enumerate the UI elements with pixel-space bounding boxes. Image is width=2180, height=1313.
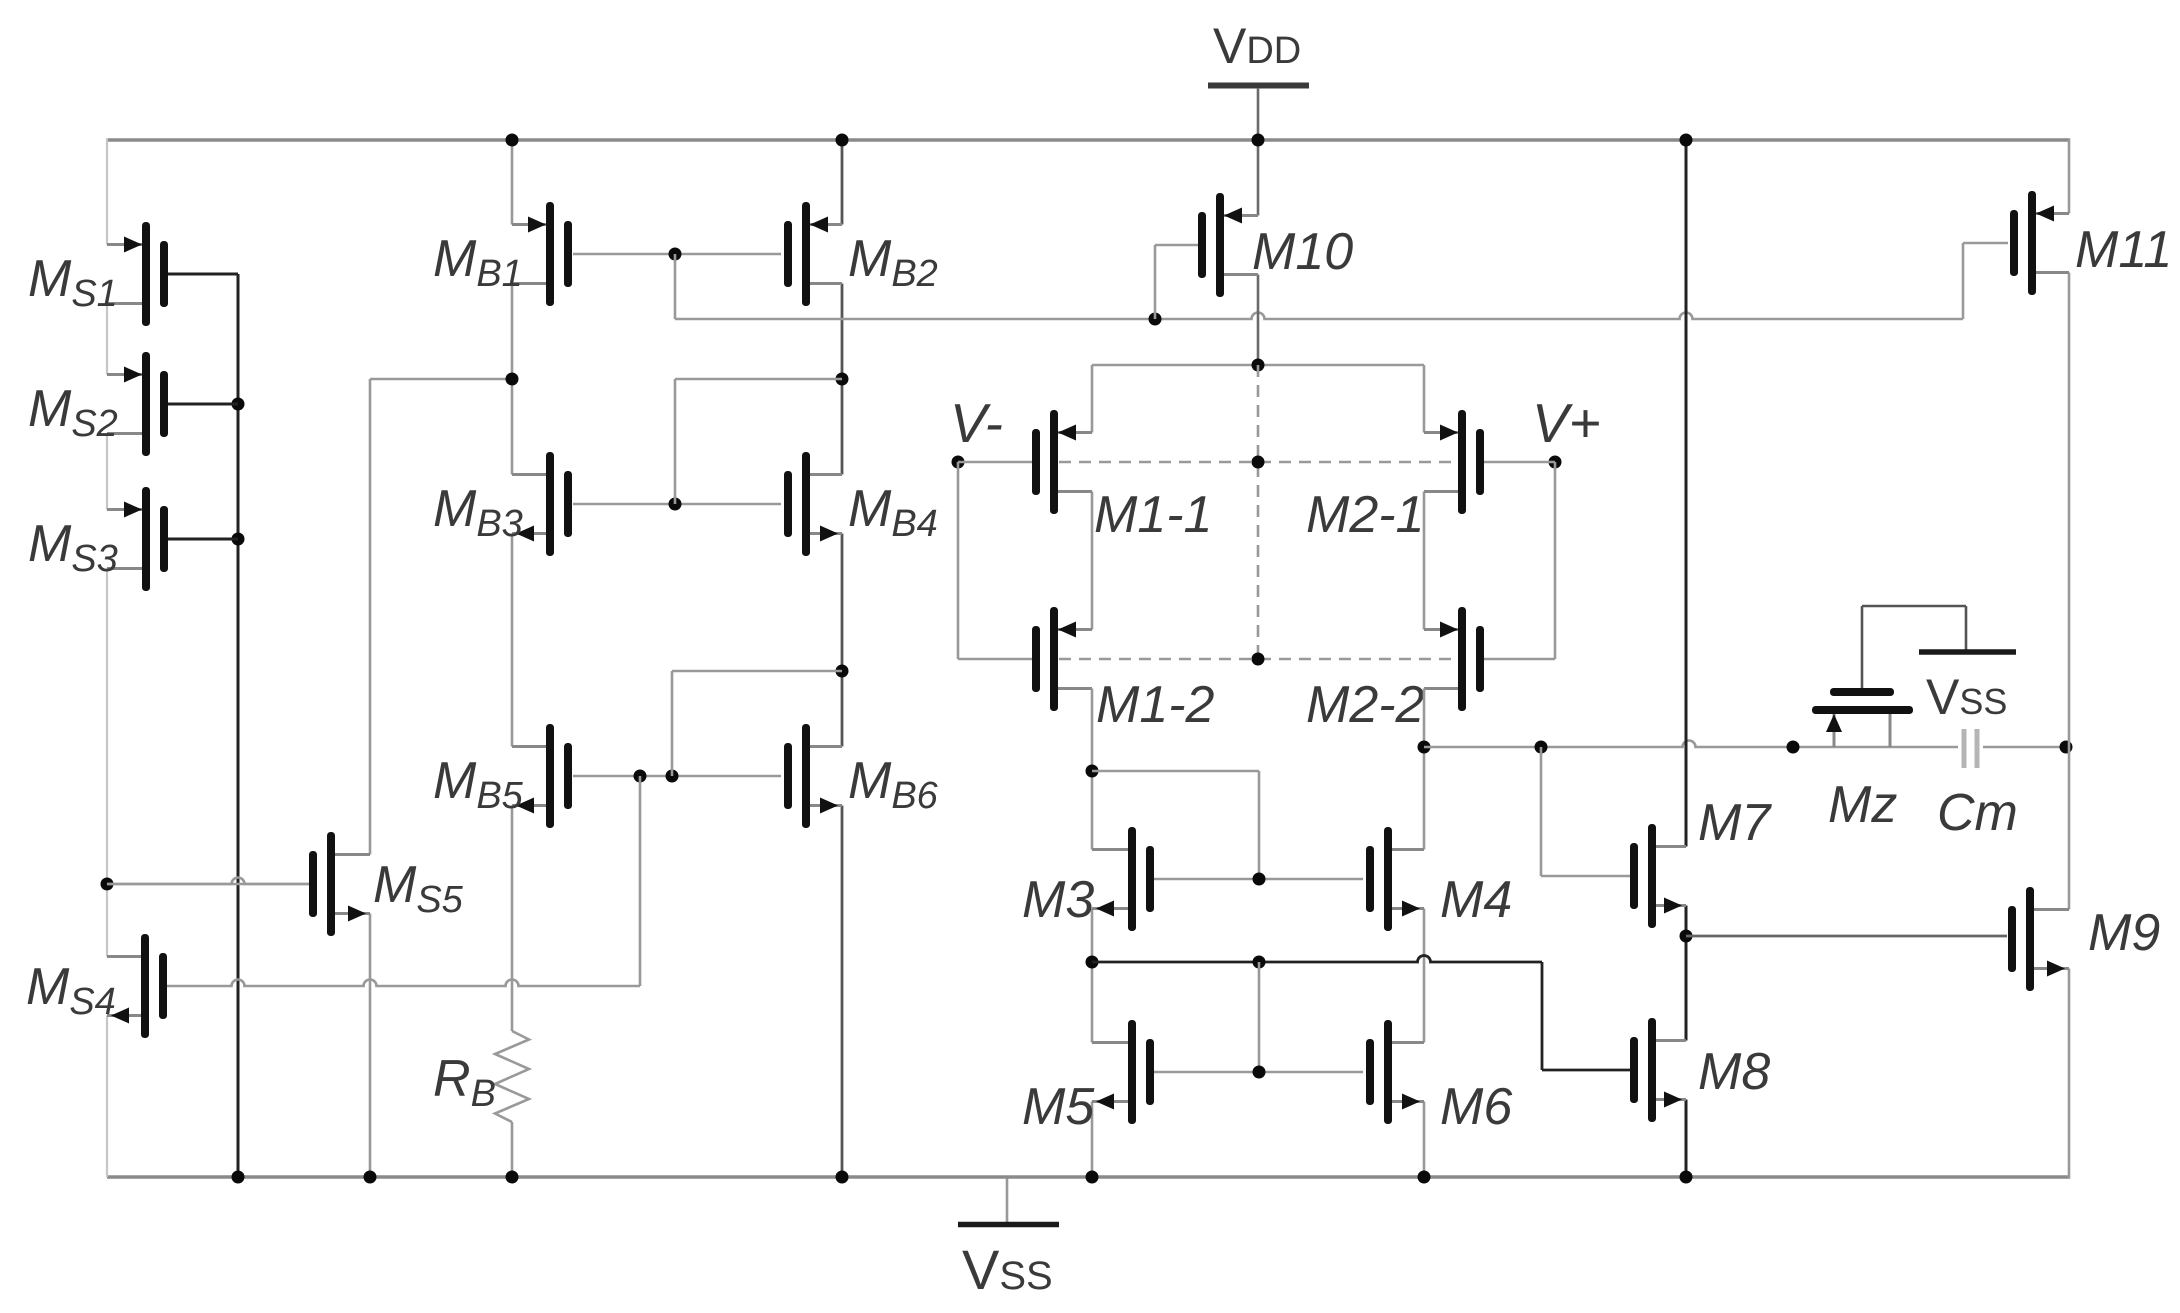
- dashed symmetry line row 2: [1059, 658, 1457, 661]
- wire: MB1-MB2 gate line: [573, 253, 781, 256]
- wire: MB1/MB3/MB5/RB column: [511, 138, 514, 1177]
- transistor M5: [1092, 1020, 1154, 1124]
- wire: right output column: [2068, 138, 2071, 1179]
- transistor M7: [1630, 824, 1686, 928]
- node: M7 source / M8 drain / M9 gate: [1680, 930, 1693, 943]
- wire: tail to M2-1 drain: [1423, 365, 1426, 433]
- wire: M9 gate line: [1686, 935, 2007, 938]
- transistor M2-1: [1424, 410, 1484, 514]
- svg-text:M10: M10: [1252, 223, 1353, 281]
- svg-text:V-: V-: [950, 392, 1003, 454]
- node: M8 source at VSS rail: [1680, 1171, 1693, 1184]
- svg-text:M6: M6: [1440, 1078, 1512, 1136]
- node: M2-2 source / first stage output: [1418, 741, 1431, 754]
- wire: MS4 gate line to MB5 gate node (hops 3 columns): [167, 980, 640, 987]
- transistor Mz: [1812, 606, 1966, 747]
- svg-text:M8: M8: [1698, 1043, 1770, 1101]
- wire: MS5 gate lead to left column (hops MS gate column): [107, 878, 309, 885]
- transistor MB3: [512, 452, 572, 556]
- node: M3/M4 gate junction: [1253, 873, 1266, 886]
- svg-text:M7: M7: [1698, 794, 1772, 852]
- VDD supply symbol: [1208, 18, 1309, 140]
- transistor MS3: [107, 487, 238, 591]
- svg-text:M1-2: M1-2: [1096, 676, 1215, 734]
- node: top rail at M7 column: [1680, 134, 1693, 147]
- wire: MB3/MB4 gate up to MB2 source node: [675, 379, 842, 504]
- node: MB6 source at VSS rail: [836, 1171, 849, 1184]
- wire: first stage output to compensation net: [1424, 741, 1793, 748]
- wire: M2-1 source to M2-2 drain: [1423, 492, 1426, 630]
- wire: MB3-MB4 gate line: [573, 503, 781, 506]
- capacitor Cm: [1964, 729, 1977, 768]
- node: top rail to MB2 column: [836, 134, 849, 147]
- wire: bias line to M10/M11 gates (hops M10, M7 columns): [675, 313, 1963, 320]
- wire: M10 source to tail node: [1257, 275, 1260, 366]
- node: MS gate column at VSS rail: [232, 1171, 245, 1184]
- transistor M4: [1366, 827, 1424, 931]
- transistor MB2: [784, 202, 842, 306]
- wire: MS1-MS3 gate column (to VSS rail): [237, 274, 240, 1177]
- wire: M1-1 source to M1-2 drain: [1091, 492, 1094, 630]
- svg-text:Cm: Cm: [1937, 784, 2018, 842]
- svg-text:M9: M9: [2088, 904, 2160, 962]
- node: symmetry cross row1: [1252, 456, 1265, 469]
- svg-text:M2-1: M2-1: [1306, 486, 1424, 544]
- transistor M9: [2008, 887, 2069, 991]
- wire: MB5-MB6 gate line: [573, 775, 781, 778]
- node: Mz source tap: [1787, 741, 1800, 754]
- wire: M7/M8 column from VDD rail: [1685, 138, 1688, 1177]
- node: M5 source at rail: [1086, 1171, 1099, 1184]
- transistor MS1: [107, 222, 238, 326]
- transistor MB6: [784, 724, 842, 828]
- dashed symmetry line row 1: [1059, 461, 1457, 464]
- wire: VDD top rail: [107, 138, 2069, 141]
- svg-text:V+: V+: [1532, 392, 1601, 454]
- transistor M10: [1198, 193, 1258, 297]
- transistor MB5: [512, 724, 572, 828]
- wire: MB2/MB4/MB6 column: [841, 138, 844, 1177]
- input node V+: [1484, 456, 1562, 660]
- wire: MB1/MB3 node branch to MS5 drain: [370, 378, 512, 381]
- transistor M2-2: [1424, 607, 1484, 711]
- transistor M1-2: [1032, 607, 1092, 711]
- wire: M3 source line to M8 gate (hops M4 column): [1092, 956, 1630, 1071]
- node: MS5 source at VSS rail: [364, 1171, 377, 1184]
- wire: M3-M4 gate line: [1151, 878, 1363, 881]
- wire: MS5 drain column up to MB1/MB3 node: [369, 379, 372, 855]
- node: top rail to MB1 column: [506, 134, 519, 147]
- wire: VSS bottom rail: [107, 1175, 2069, 1179]
- transistor M11: [2010, 191, 2069, 295]
- node: M3 source / bias tap: [1086, 956, 1099, 969]
- wire: gate node down to bias line: [674, 254, 677, 319]
- node: VDD rail at M10 column: [1252, 134, 1265, 147]
- transistor M6: [1366, 1020, 1424, 1124]
- transistor MB1: [512, 202, 572, 306]
- node: output column at compensation net: [2060, 741, 2073, 754]
- node: MB2 source / MB4 drain / cascode gate tap: [836, 373, 849, 386]
- wire: M3 source to M5 drain: [1091, 909, 1094, 1043]
- wire: M3/M4 gate feed from M1-2 source: [1092, 771, 1259, 879]
- wire: MS5 source column down to VSS rail: [369, 914, 372, 1178]
- node: M5/M6 gate junction: [1253, 1066, 1266, 1079]
- transistor MS4: [107, 934, 167, 1038]
- transistor M1-1: [1032, 410, 1092, 514]
- wire: left column (MS1-MS4 drain/source chain): [106, 138, 108, 1177]
- node: MS3 gate junction: [232, 533, 245, 546]
- node: MB5 gate / MS4 gate junction: [634, 770, 647, 783]
- node: tail node: [1252, 359, 1265, 372]
- svg-text:M5: M5: [1022, 1078, 1095, 1136]
- VSS bottom supply symbol: [958, 1177, 1059, 1301]
- input node V-: [952, 456, 1033, 660]
- transistor MS2: [107, 352, 238, 456]
- node: M7 gate tap: [1535, 741, 1548, 754]
- wire: M1-2 source down to M3 drain: [1091, 689, 1094, 850]
- node: M6 source at rail: [1418, 1171, 1431, 1184]
- wire: M10 gate lead: [1155, 245, 1198, 319]
- node: MB3/MB4 gate junction: [669, 498, 682, 511]
- svg-text:M4: M4: [1440, 871, 1512, 929]
- node: M5/M6 gate tap: [1253, 956, 1266, 969]
- resistor RB: [495, 1031, 529, 1129]
- dashed symmetry line vertical: [1257, 365, 1260, 659]
- wire: M5-M6 gate line: [1151, 1071, 1363, 1074]
- wire: M11 gate to bias line: [1963, 243, 2008, 319]
- wire: MB5 gate node down to MS4 gate line: [639, 776, 642, 986]
- wire: down to M5/M6 gate line: [1258, 962, 1261, 1072]
- wire: VDD rail to M10: [1257, 140, 1260, 216]
- svg-text:M1-1: M1-1: [1094, 486, 1212, 544]
- svg-text:Mz: Mz: [1828, 776, 1897, 834]
- node: MB5/MB6 gate junction: [666, 770, 679, 783]
- wire: M2-2 source down to M4 drain: [1423, 689, 1426, 850]
- wire: tail node horizontal: [1092, 364, 1424, 367]
- node: MB1 source / MB3 drain / MS5 drain: [506, 373, 519, 386]
- svg-text:M3: M3: [1022, 871, 1094, 929]
- transistor M3: [1092, 827, 1154, 931]
- transistor MB4: [784, 452, 842, 556]
- svg-text:M11: M11: [2075, 221, 2172, 279]
- wire: M5 source to VSS rail: [1091, 1102, 1094, 1178]
- node: MS2 gate junction: [232, 398, 245, 411]
- wire: M7 gate feed: [1541, 747, 1630, 876]
- node: M1-2 source / M3 gate tap: [1086, 765, 1099, 778]
- wire: MB5/MB6 gate up to MB4 source node: [672, 671, 842, 776]
- wire: M4 source to M6 drain: [1423, 909, 1426, 1043]
- node: M10 gate at bias line: [1149, 313, 1162, 326]
- wire: M6 source to VSS rail: [1423, 1102, 1426, 1178]
- wire: Mz/Cm compensation segment: [1793, 746, 2066, 749]
- node: MB4 source / MB6 drain / MB5 gate tap: [836, 665, 849, 678]
- node: MB1/MB2 gate junction: [669, 248, 682, 261]
- svg-text:M2-2: M2-2: [1306, 676, 1425, 734]
- transistor M8: [1630, 1018, 1686, 1122]
- wire: tail to M1-1 drain: [1091, 365, 1094, 433]
- node: symmetry cross row2: [1252, 653, 1265, 666]
- VSS symbol at Mz gate: [1919, 606, 2016, 725]
- node: RB bottom at VSS rail: [506, 1171, 519, 1184]
- node: MS5 gate tap on left column: [101, 878, 114, 891]
- transistor MS5: [107, 832, 370, 936]
